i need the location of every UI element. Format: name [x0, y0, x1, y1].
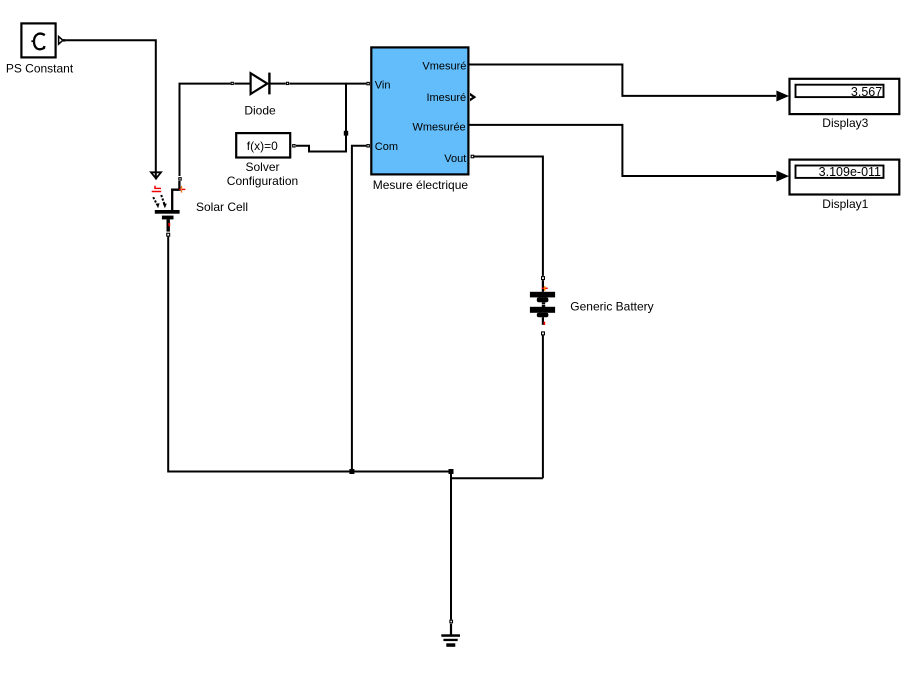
- svg-text:Diode: Diode: [244, 104, 276, 118]
- svg-text:Vin: Vin: [375, 79, 391, 91]
- svg-text:3.109e-011: 3.109e-011: [819, 165, 881, 179]
- svg-text:Display3: Display3: [822, 116, 868, 130]
- svg-text:Vout: Vout: [444, 153, 466, 165]
- svg-text:Display1: Display1: [822, 197, 868, 211]
- svg-text:Com: Com: [375, 141, 398, 153]
- svg-text:Solar Cell: Solar Cell: [196, 200, 248, 214]
- svg-text:Mesure électrique: Mesure électrique: [373, 178, 469, 192]
- svg-text:Wmesurée: Wmesurée: [413, 122, 466, 134]
- svg-text:Imesuré: Imesuré: [426, 92, 466, 104]
- svg-text:Generic Battery: Generic Battery: [570, 300, 653, 314]
- svg-text:Solver: Solver: [245, 160, 279, 174]
- svg-text:Vmesuré: Vmesuré: [422, 61, 466, 73]
- svg-text:PS Constant: PS Constant: [6, 61, 74, 75]
- svg-text:3.567: 3.567: [851, 85, 882, 99]
- svg-text:f(x)=0: f(x)=0: [247, 139, 278, 153]
- svg-text:Configuration: Configuration: [227, 174, 298, 188]
